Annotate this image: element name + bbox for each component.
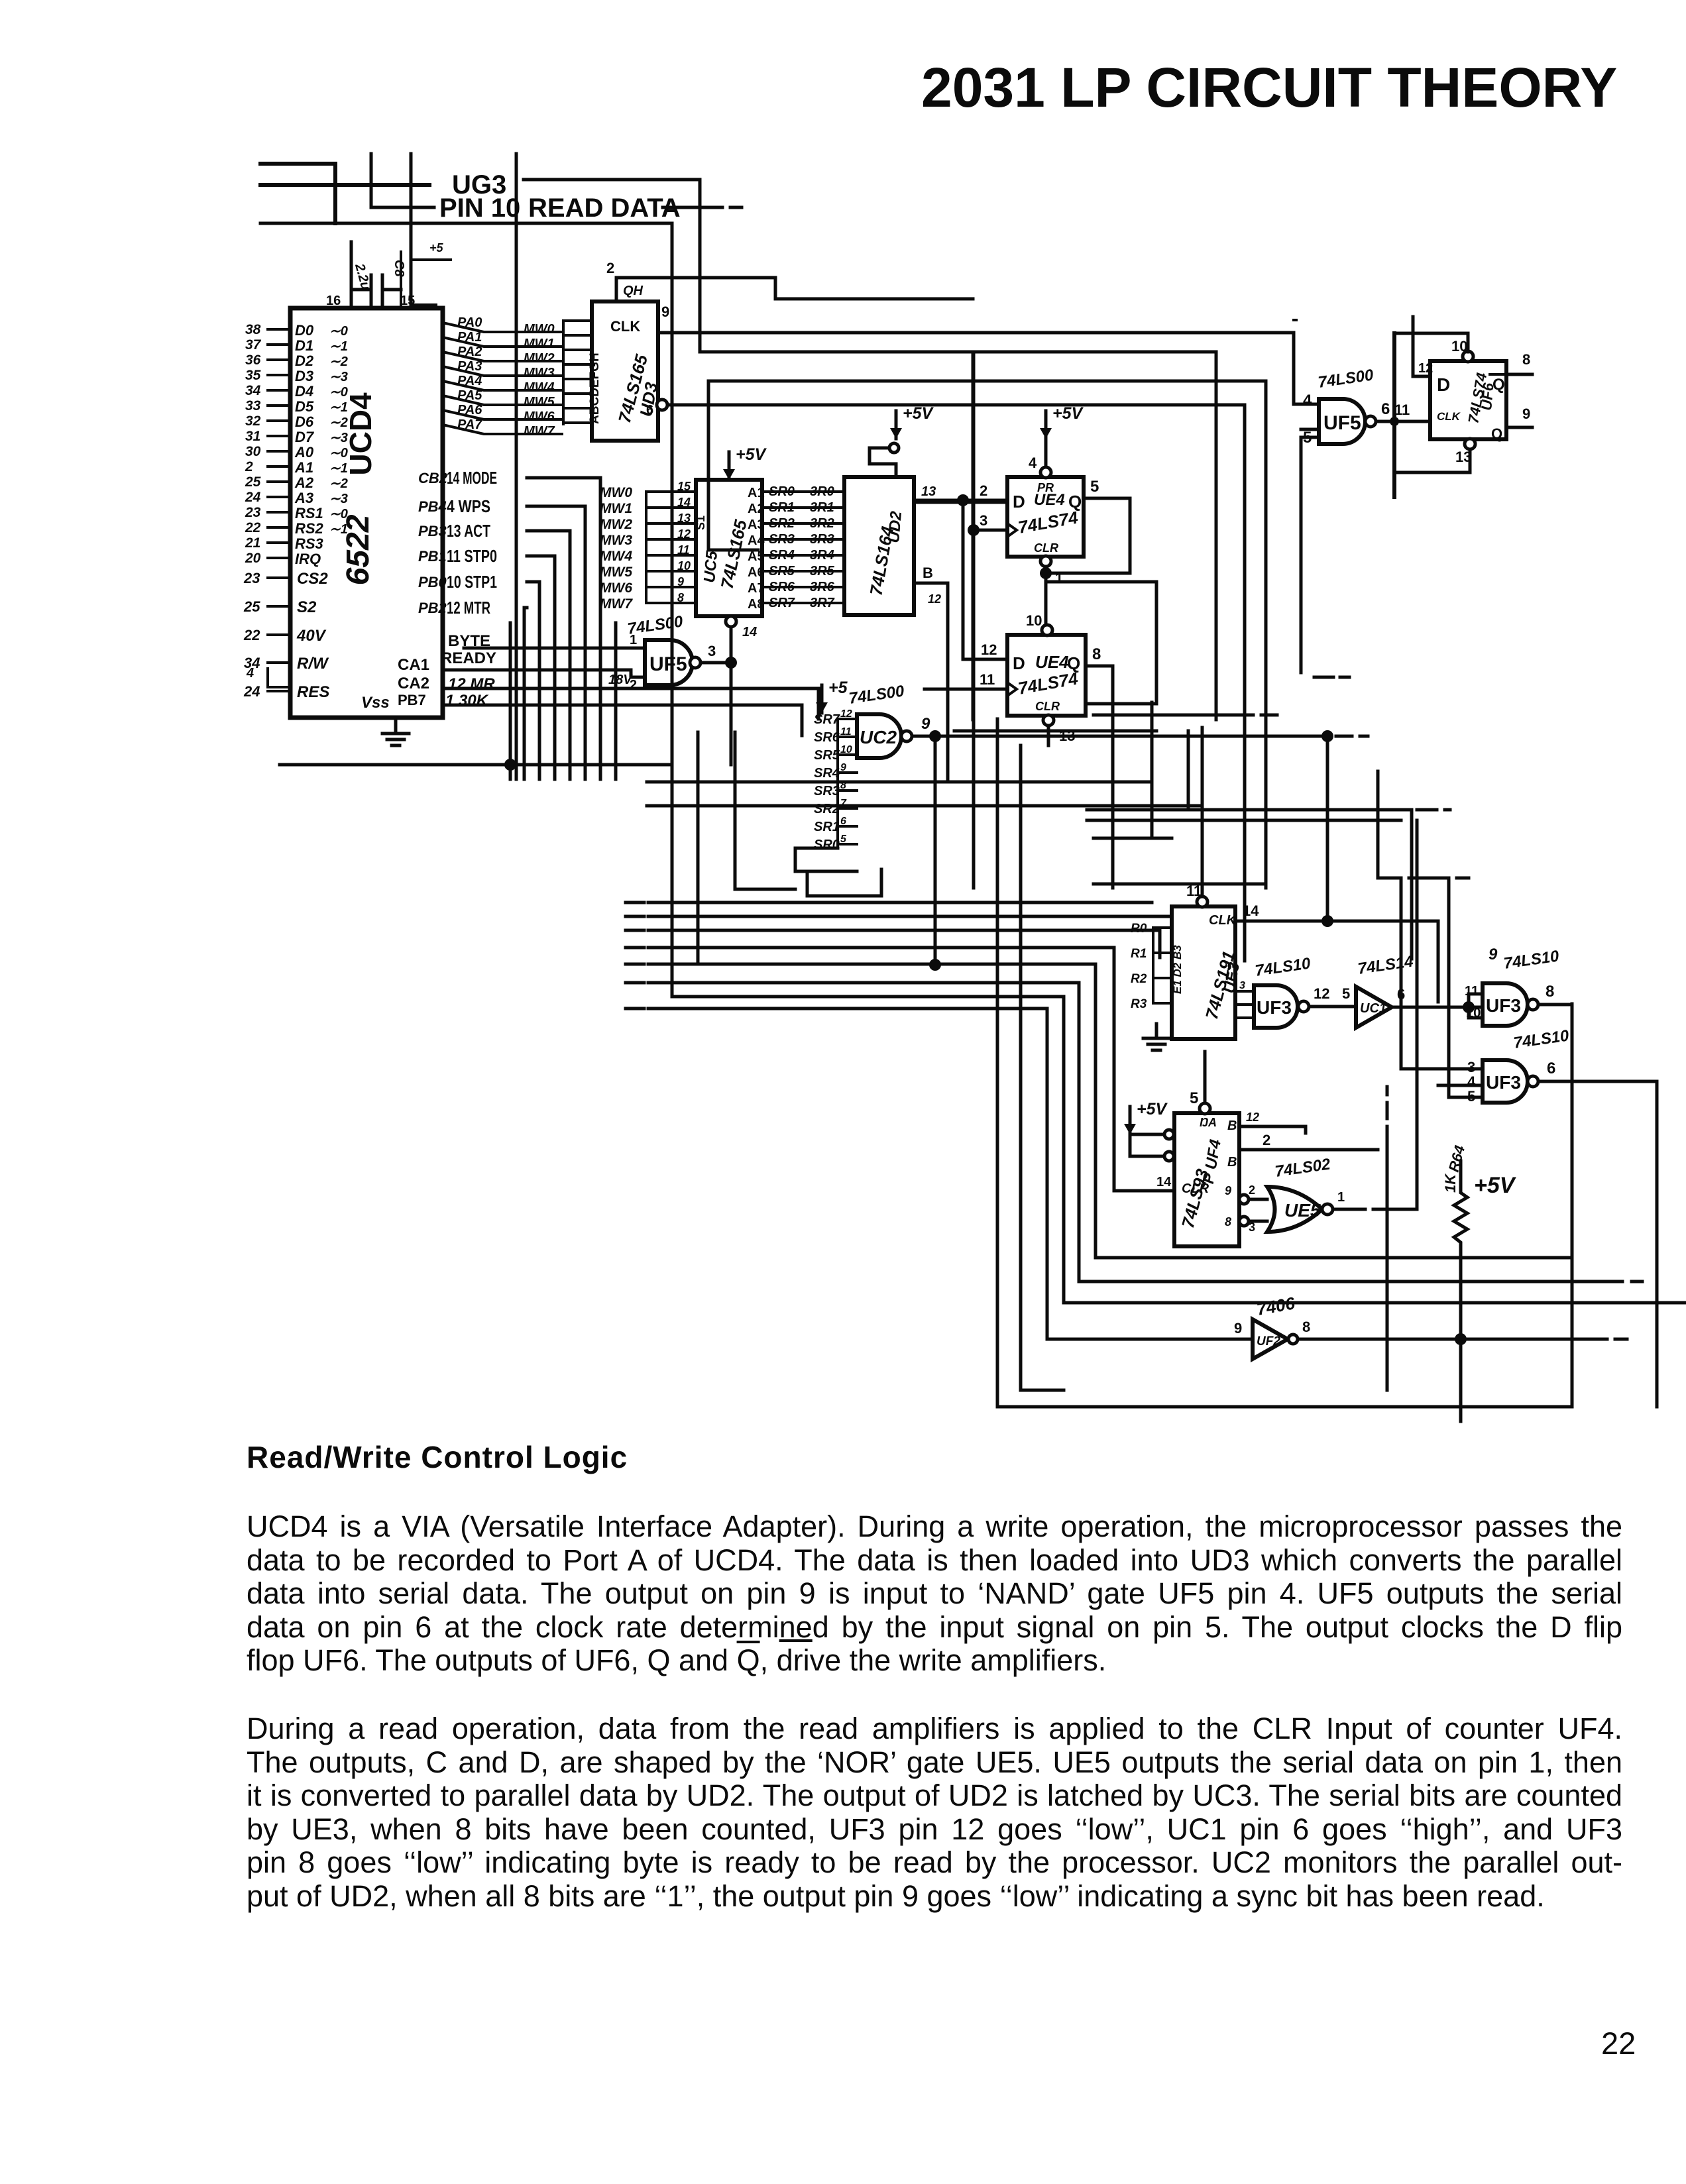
svg-text:PIN 10: PIN 10	[439, 193, 520, 223]
wire weave v2079	[1378, 771, 1401, 878]
svg-text:A8: A8	[748, 597, 765, 612]
wire weave h1265	[1094, 837, 1153, 840]
svg-text:8: 8	[677, 591, 684, 604]
svg-text:MW0: MW0	[524, 322, 555, 337]
svg-text:MW7: MW7	[600, 596, 633, 612]
wire UE4a feed from top	[972, 353, 976, 888]
svg-text:5: 5	[1190, 1089, 1198, 1107]
pin stub UCD4 left 11	[268, 496, 290, 498]
pin stub UCD4 left 10	[268, 480, 290, 483]
svg-text:74LS10: 74LS10	[1512, 1026, 1571, 1052]
svg-text:14: 14	[677, 496, 691, 509]
pin stub UC2 in 2	[838, 753, 857, 756]
svg-text:32: 32	[245, 413, 261, 429]
wire bus stub 3	[626, 946, 644, 950]
wire top vertical b	[410, 154, 413, 308]
svg-text:A6: A6	[748, 565, 765, 580]
svg-text:SR3: SR3	[814, 784, 840, 798]
svg-text:2: 2	[980, 482, 987, 499]
svg-text:18V: 18V	[608, 673, 633, 687]
wire open rail y1154	[280, 763, 672, 767]
svg-text:25: 25	[243, 598, 260, 615]
wire UC5 A4 to UD2	[762, 538, 844, 541]
ground UE3	[1143, 1024, 1170, 1050]
pin stub UCD4 lower-left 2	[268, 633, 290, 636]
svg-text:UC5: UC5	[701, 550, 721, 584]
IC UD2 74LS164	[844, 477, 914, 615]
pin UE4b CLK 11	[925, 688, 1007, 691]
power +5V UE4a	[1044, 411, 1048, 439]
pin stub UCD4 left 6	[268, 419, 290, 422]
svg-text:RS1: RS1	[295, 505, 323, 521]
wire serial data UD3.9 to UF5 pin4	[658, 333, 1319, 404]
wire control 1 down	[527, 506, 585, 779]
svg-text:6: 6	[1397, 986, 1405, 1003]
pin stub UC5 left 0	[646, 490, 696, 493]
svg-text:PB7: PB7	[398, 692, 426, 708]
svg-text:3R7: 3R7	[810, 596, 835, 610]
svg-text:D: D	[1013, 653, 1025, 673]
svg-text:MW6: MW6	[524, 409, 555, 424]
wire UF2 out to R64 junction	[1298, 1338, 1581, 1341]
power +5V UF4	[1129, 1107, 1132, 1134]
svg-text:∼1: ∼1	[329, 400, 348, 415]
svg-text:SR1: SR1	[814, 820, 840, 834]
pin stub UCD4 left 4	[268, 389, 290, 392]
wire PA7 fan to UD3	[443, 425, 562, 434]
svg-text:Q: Q	[1067, 653, 1080, 673]
svg-text:23: 23	[243, 570, 260, 586]
svg-text:13 ACT: 13 ACT	[447, 521, 490, 541]
svg-text:PB4: PB4	[418, 498, 447, 515]
svg-text:R2: R2	[1131, 972, 1147, 986]
svg-text:Q: Q	[1491, 425, 1502, 442]
NAND gate UF3 b 74LS10	[1483, 983, 1528, 1026]
svg-text:B: B	[1227, 1155, 1237, 1170]
wire vert left of UF6	[1392, 333, 1396, 497]
wire bus stub 4	[626, 963, 644, 966]
pin UF6 Qbar overline	[1490, 373, 1506, 376]
svg-text:MW3: MW3	[524, 366, 555, 380]
svg-text:R0: R0	[1131, 922, 1147, 936]
pin stub UCD4 left 7	[268, 435, 290, 437]
svg-text:CLK: CLK	[610, 318, 640, 335]
svg-text:∼1: ∼1	[329, 461, 348, 476]
svg-text:QH: QH	[623, 284, 644, 298]
pin stub UD3 left 0	[563, 319, 592, 322]
pin stub UE3 left 2	[1153, 977, 1172, 979]
wire weave h1180	[1094, 781, 1152, 784]
svg-text:1: 1	[1337, 1190, 1345, 1205]
svg-text:30: 30	[245, 444, 261, 459]
svg-text:9: 9	[921, 715, 930, 733]
svg-text:PB2: PB2	[418, 600, 447, 616]
wire bus line 3	[648, 948, 1174, 1191]
wire run y575	[708, 380, 1266, 383]
wire weave v1738	[1152, 702, 1172, 838]
svg-text:4: 4	[1029, 455, 1037, 471]
wire bus line 6	[672, 997, 1686, 1303]
wire UF4 left pins	[1130, 1134, 1165, 1156]
wire vert x1053	[697, 732, 700, 964]
junction UF5b out at UF6 rail	[1390, 417, 1399, 426]
svg-text:9: 9	[840, 762, 846, 773]
junction UC2-bus	[929, 959, 941, 971]
pin UE4b Q 9	[1086, 666, 1113, 888]
svg-text:CLK: CLK	[1209, 913, 1237, 928]
svg-text:74LS10: 74LS10	[1502, 947, 1561, 973]
svg-text:D2: D2	[295, 353, 314, 369]
svg-text:7406: 7406	[1255, 1293, 1297, 1319]
pin stub UCD4 left 3	[268, 374, 290, 376]
svg-text:UC2: UC2	[860, 727, 897, 747]
wire bus line 7	[648, 1009, 1253, 1339]
svg-text:PA5: PA5	[457, 388, 482, 403]
wire UF6 preset loop	[1394, 333, 1468, 352]
pin UC5 9 bottom	[726, 616, 736, 627]
svg-text:3R4: 3R4	[810, 548, 834, 563]
wire UF5b pin5 feed	[1301, 437, 1319, 673]
svg-text:UD2: UD2	[885, 510, 905, 544]
svg-text:∼3: ∼3	[329, 431, 348, 445]
svg-text:∼0: ∼0	[329, 507, 348, 521]
IC UD3 74LS165	[592, 301, 658, 441]
svg-text:3: 3	[708, 643, 716, 659]
wire UE4a preset up	[1044, 439, 1048, 467]
svg-text:PA0: PA0	[457, 315, 482, 330]
wire UF4 QB right long	[1239, 1148, 1378, 1152]
wire PA1 fan to UD3	[443, 337, 562, 347]
svg-text:11: 11	[980, 671, 995, 688]
svg-text:74LS10: 74LS10	[1254, 954, 1312, 980]
svg-text:Q: Q	[1492, 376, 1505, 394]
ground below UCD4	[382, 719, 409, 745]
svg-text:35: 35	[245, 368, 261, 383]
svg-text:R1: R1	[1131, 947, 1147, 961]
svg-text:SR1: SR1	[769, 500, 795, 515]
wire UF3b inputs	[1469, 994, 1483, 1018]
wire weave dashdot pair b	[1087, 819, 1401, 822]
svg-text:8: 8	[1522, 351, 1530, 368]
svg-text:MW1: MW1	[524, 337, 555, 351]
paragraph 2	[247, 1712, 1622, 1914]
svg-text:A0: A0	[294, 444, 314, 461]
svg-text:+5: +5	[828, 679, 848, 697]
wire long vertical read-data	[515, 154, 518, 779]
IC UF4 74LS93	[1174, 1113, 1239, 1246]
wire UC5 A5 to UD2	[762, 554, 844, 557]
svg-text:C8: C8	[392, 260, 406, 277]
svg-text:CLR: CLR	[1182, 1181, 1209, 1196]
pin stub UC5 left 3	[646, 538, 696, 541]
svg-text:3R0: 3R0	[810, 484, 834, 499]
svg-text:D5: D5	[295, 398, 314, 415]
power +5V UC5	[728, 452, 731, 480]
wire UF3c out right	[1538, 1081, 1657, 1407]
wire junction down to UE3 clk	[1326, 736, 1329, 921]
wire UC5 A7 to UD2	[762, 586, 844, 588]
pin stub UCD4 left 5	[268, 404, 290, 407]
svg-text:UC1: UC1	[1360, 1001, 1386, 1016]
wire UF3c input 4	[1438, 1084, 1483, 1087]
svg-text:1 30K: 1 30K	[445, 692, 489, 710]
wire loop bottom dash a	[1581, 1338, 1627, 1341]
svg-text:CB2: CB2	[418, 470, 448, 486]
pin stub UC2 in 5	[838, 807, 857, 810]
pin stub UCD4 left 2	[268, 358, 290, 361]
svg-text:5: 5	[840, 834, 847, 845]
svg-text:4: 4	[246, 666, 254, 681]
svg-text:UF3: UF3	[1257, 997, 1292, 1018]
svg-text:34: 34	[245, 383, 261, 398]
pin stub UC5 left 6	[646, 586, 696, 588]
wire bus stub 1	[626, 915, 644, 918]
wire PA5 fan to UD3	[443, 396, 562, 405]
wire weave dashdot pair a	[1087, 808, 1450, 812]
svg-text:SR5: SR5	[814, 748, 840, 763]
svg-text:5: 5	[1342, 985, 1350, 1002]
svg-text:11: 11	[1394, 402, 1410, 418]
wire vert x1540	[1019, 745, 1023, 1390]
svg-text:10: 10	[677, 559, 691, 573]
wire PB7 bundle	[509, 623, 512, 779]
wire dash under pin5	[1314, 676, 1349, 679]
svg-text:CLR: CLR	[1035, 700, 1060, 713]
wire bus0 dashdot	[722, 901, 766, 904]
svg-text:B: B	[923, 565, 933, 581]
svg-text:CLR: CLR	[1034, 541, 1058, 555]
wire UF3b out right	[1538, 1003, 1571, 1007]
wire bus line 1	[648, 915, 1172, 918]
svg-text:10: 10	[840, 744, 852, 755]
svg-text:37: 37	[245, 337, 262, 353]
svg-text:11 STP0: 11 STP0	[447, 546, 497, 566]
page number	[1601, 2025, 1636, 2061]
capacitor C8	[351, 242, 401, 305]
wire PA6 fan to UD3	[443, 410, 562, 419]
svg-text:8: 8	[1302, 1319, 1310, 1335]
svg-text:SR5: SR5	[769, 564, 795, 578]
wire UE4b clr down	[1047, 726, 1050, 745]
svg-text:+5V: +5V	[903, 404, 934, 423]
wire BYTE READY to UF5 pin1	[464, 647, 645, 650]
wire mid rail y1180	[647, 781, 1152, 784]
svg-text:11: 11	[1465, 984, 1479, 999]
pin stub UCD4 corner	[268, 669, 290, 687]
svg-text:38: 38	[245, 322, 261, 337]
svg-text:9: 9	[1225, 1184, 1231, 1197]
svg-text:PB3: PB3	[418, 523, 447, 539]
svg-text:A7: A7	[748, 581, 765, 596]
pin stub UE3 left 1	[1153, 952, 1172, 954]
svg-text:MW5: MW5	[600, 565, 632, 580]
svg-text:∼0: ∼0	[329, 446, 348, 461]
wire UF5a output	[701, 661, 731, 665]
clk wedge UE4b	[1007, 682, 1017, 696]
wire bus stub 5	[626, 981, 644, 985]
wire UC2 lower staircase 1	[795, 848, 857, 871]
svg-text:3R2: 3R2	[810, 516, 834, 531]
svg-text:12 MTR: 12 MTR	[447, 598, 490, 618]
pin stub UC2 in 0	[838, 718, 857, 720]
svg-text:A3: A3	[294, 490, 313, 506]
section heading	[247, 1439, 628, 1475]
svg-text:10: 10	[1451, 338, 1467, 355]
pin stub UCD4 lower-left 4	[268, 690, 290, 692]
svg-text:40V: 40V	[296, 627, 327, 645]
wire bus line 0	[648, 901, 1152, 904]
svg-text:UF5: UF5	[1323, 412, 1361, 434]
wire PA2 fan to UD3	[443, 352, 562, 361]
pin stub UC2 in 4	[838, 789, 857, 792]
svg-text:PA3: PA3	[457, 359, 482, 374]
svg-text:2.2u: 2.2u	[352, 262, 373, 292]
wire top vertical a	[370, 154, 373, 207]
svg-text:8: 8	[1092, 645, 1101, 663]
svg-text:4 WPS: 4 WPS	[447, 496, 490, 516]
wire PB7 run	[443, 705, 802, 736]
flip-flop UE4 b 74LS74	[1007, 635, 1086, 716]
svg-text:25: 25	[245, 474, 261, 490]
svg-text:20: 20	[245, 551, 261, 566]
svg-text:+5V: +5V	[736, 445, 767, 464]
NAND gate UF5 b 74LS00	[1319, 399, 1365, 444]
wire bus stub 0	[626, 901, 644, 904]
svg-text:6: 6	[1381, 400, 1390, 418]
wire weave h1334	[1094, 883, 1266, 886]
svg-text:12: 12	[1418, 361, 1433, 376]
wire run y648 elbow	[1301, 428, 1319, 431]
pin stub UCD4 left 0	[268, 328, 290, 331]
wire control 0 down	[527, 478, 600, 779]
wire PA0 fan to UD3	[443, 323, 562, 332]
pin stub UC5 left 1	[646, 506, 696, 509]
wire loop y1934 dash tail	[1632, 1280, 1642, 1283]
svg-text:+5V: +5V	[1474, 1173, 1517, 1198]
pin stub UCD4 lower-left 0	[268, 576, 290, 579]
svg-text:Vss: Vss	[361, 694, 390, 712]
pin stub UC5 left 5	[646, 570, 696, 573]
svg-text:74LS00: 74LS00	[1317, 366, 1375, 392]
svg-text:Ƥ UF4: Ƥ UF4	[1199, 1138, 1225, 1187]
wire UC5 A2 to UD2	[762, 506, 844, 509]
svg-text:36: 36	[245, 353, 261, 368]
wire READ DATA tail2	[730, 206, 742, 209]
pin stub UD3 left 5	[563, 392, 592, 395]
NOR gate UE5 74LS02	[1267, 1187, 1322, 1232]
svg-text:SR0: SR0	[814, 838, 840, 852]
power +5V UD2 hook	[870, 448, 896, 477]
svg-text:23: 23	[245, 505, 261, 520]
svg-text:CLK: CLK	[1437, 410, 1461, 423]
svg-text:R/W: R/W	[297, 655, 329, 673]
wire UF4 QA right	[1239, 1126, 1306, 1133]
wire bus line 5	[648, 983, 1622, 1282]
inverter UC1 74LS14	[1356, 987, 1392, 1028]
wire UC2 out down to bus	[934, 736, 937, 965]
pin stub UC5 left 7	[646, 602, 696, 604]
svg-text:6: 6	[1547, 1060, 1555, 1077]
svg-text:MW3: MW3	[600, 533, 632, 548]
junction UC2 out at col	[929, 730, 941, 742]
svg-text:PA4: PA4	[457, 374, 482, 388]
svg-text:MW2: MW2	[600, 517, 632, 532]
wire mid rail y1216	[647, 804, 1202, 808]
wire UC1 out to UF3b	[1392, 1006, 1483, 1009]
svg-text:RS2: RS2	[295, 520, 324, 537]
wire bus stub 7	[626, 1007, 644, 1010]
svg-text:MW4: MW4	[600, 549, 632, 564]
svg-text:3: 3	[1249, 1221, 1255, 1234]
svg-text:SR6: SR6	[814, 730, 840, 745]
wire UD3.6 long run	[667, 405, 1245, 961]
svg-text:9: 9	[1489, 946, 1498, 963]
svg-text:5: 5	[1090, 478, 1099, 496]
svg-text:A1: A1	[748, 486, 765, 500]
svg-text:∼0: ∼0	[329, 324, 348, 339]
wire weave h1103	[954, 730, 1156, 733]
wire UE3 left nest	[1152, 928, 1154, 1003]
power +5V UD2	[895, 411, 898, 439]
pin stub UD3 left 3	[563, 363, 592, 366]
pin stub UCD4 left 13	[268, 526, 290, 529]
flip-flop UF6 74LS74	[1430, 361, 1506, 439]
pin UE4a D 2	[914, 499, 1007, 502]
pin stub UC2 in 7	[838, 843, 857, 846]
pin stub UCD4 left 8	[268, 450, 290, 453]
svg-text:SR0: SR0	[769, 484, 795, 499]
svg-text:MW2: MW2	[524, 351, 555, 366]
wire weave v2130 down	[1410, 810, 1414, 959]
svg-text:12: 12	[928, 592, 941, 606]
junction rail-bundle	[504, 759, 516, 771]
svg-text:14: 14	[742, 625, 757, 639]
pin stub UCD4 lower-left 1	[268, 605, 290, 608]
svg-text:74LS14: 74LS14	[1357, 953, 1414, 978]
wire run y483 (UD3.9 handled)	[1294, 319, 1296, 321]
svg-text:D1: D1	[295, 337, 313, 354]
svg-text:MW4: MW4	[524, 380, 555, 395]
svg-text:READY: READY	[441, 649, 496, 667]
pin stub UC2 in 1	[838, 736, 857, 738]
pin stub UCD4 lower-left 3	[268, 661, 290, 664]
svg-text:CS2: CS2	[297, 570, 328, 588]
inverter UF2 7406	[1253, 1319, 1288, 1359]
svg-text:R3: R3	[1131, 997, 1147, 1011]
pin UD2 B out	[914, 583, 948, 779]
svg-text:3R5: 3R5	[810, 564, 835, 578]
svg-text:D6: D6	[295, 413, 314, 430]
wire weave v1679 up	[1111, 692, 1115, 731]
pin UF6 9 out	[1506, 426, 1532, 429]
svg-text:2: 2	[1263, 1132, 1270, 1148]
IC UCD4 6522 VIA	[290, 308, 443, 718]
wire dash tail	[1336, 735, 1368, 738]
clk wedge UE4a	[1007, 523, 1017, 537]
wire control 4 down	[527, 582, 539, 779]
svg-text:33: 33	[245, 398, 261, 413]
svg-text:2: 2	[606, 260, 614, 276]
wire bus stub 2	[626, 929, 644, 932]
wire UF3a out to UC1	[1309, 1005, 1356, 1009]
svg-text:D: D	[1437, 374, 1450, 395]
NAND gate UF3 c 74LS10	[1483, 1060, 1528, 1103]
svg-text:11: 11	[840, 726, 852, 737]
page title	[921, 56, 1617, 120]
svg-text:D0: D0	[295, 322, 314, 339]
flip-flop UE4 a 74LS74	[1007, 477, 1084, 557]
svg-text:8: 8	[1545, 983, 1554, 1001]
